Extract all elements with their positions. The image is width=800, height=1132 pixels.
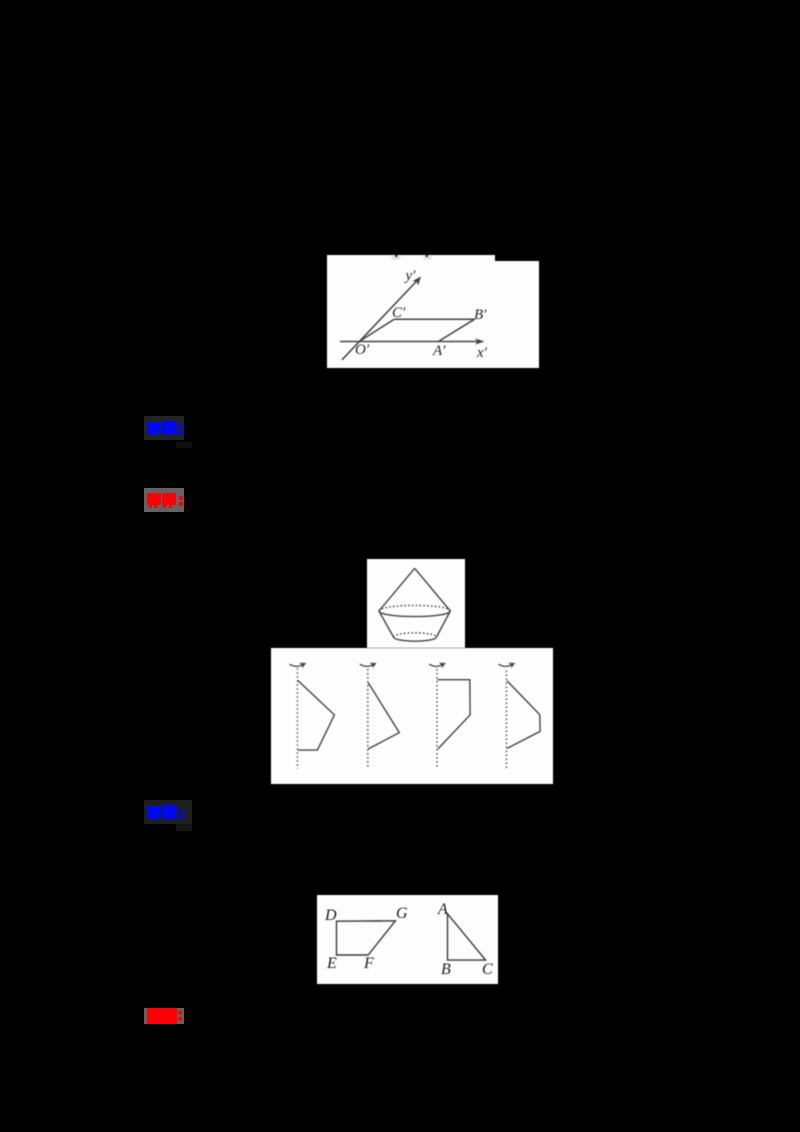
figure box 2: cone on frustum solid (367, 559, 465, 648)
text remnant smudge 1 (392, 256, 401, 260)
cone right side (415, 568, 451, 611)
text remnant smudge 2 (424, 256, 432, 260)
svg-text:F: F (363, 955, 374, 972)
frustum left side (379, 611, 394, 637)
y'-axis (342, 278, 420, 360)
option C rotation arrow (429, 664, 442, 666)
triangle ABC (448, 914, 486, 960)
option B rotation arrow (360, 664, 373, 666)
parallelogram side C'B' (394, 318, 474, 320)
option C profile polyline (437, 680, 470, 749)
svg-text:C: C (482, 961, 493, 978)
option D axis (dotted) (505, 671, 507, 770)
svg-text:D: D (324, 907, 337, 924)
frustum right side (437, 611, 451, 637)
svg-text:G: G (396, 905, 408, 922)
svg-text:B: B (441, 961, 451, 978)
analysis label 1 (red) (144, 488, 184, 512)
y-axis arrowhead (413, 277, 422, 286)
figure box 4: trapezoid DEFG and right triangle ABC (317, 895, 498, 984)
option A rotation arrow (289, 664, 302, 666)
svg-text:x′: x′ (476, 345, 488, 361)
black notch top-right of box (495, 255, 539, 261)
svg-text:E: E (326, 955, 337, 972)
cone left side (379, 568, 415, 611)
option C axis (dotted) (436, 669, 438, 768)
x'-axis (340, 341, 482, 343)
answer label 2 (blue) (144, 800, 192, 824)
bottom ellipse upper arc (dotted) (394, 633, 437, 637)
option B profile polyline (368, 683, 399, 749)
top ellipse lower arc (solid) (379, 611, 450, 617)
parallelogram side A'B' (438, 319, 474, 341)
option D rotation arrow (498, 664, 511, 666)
svg-text:y′: y′ (404, 268, 417, 284)
option A axis (dotted) (296, 668, 298, 769)
figure box 1: oblique axonometric parallelogram O'A'B'C' (327, 255, 539, 368)
figure box 3: four rotation option profiles (271, 648, 553, 784)
svg-text:A′: A′ (432, 343, 446, 359)
answer label 1 (blue) (144, 416, 184, 440)
trapezoid DEFG (337, 921, 396, 955)
svg-text:C′: C′ (392, 305, 406, 321)
option A profile polyline (298, 681, 335, 751)
bottom ellipse lower arc (solid) (394, 637, 437, 641)
analysis label 2 (red) (144, 1008, 184, 1024)
svg-text:O′: O′ (355, 342, 370, 358)
svg-text:A: A (437, 901, 448, 918)
top ellipse upper arc (dotted) (379, 605, 450, 611)
parallelogram side O'C' (360, 319, 395, 341)
option D profile polyline (507, 681, 540, 749)
x-axis arrowhead (475, 338, 485, 344)
option B axis (dotted) (367, 669, 369, 769)
svg-text:B′: B′ (474, 307, 487, 323)
